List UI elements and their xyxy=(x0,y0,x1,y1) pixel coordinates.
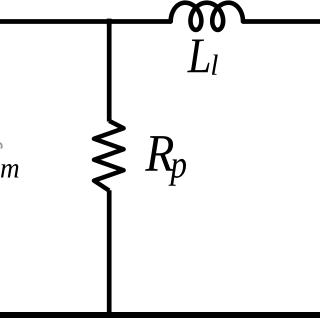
label R of R_p (resistor) xyxy=(145,136,174,171)
label p subscript of R_p xyxy=(168,159,185,186)
label m: cut-off subscript of left component xyxy=(1,164,19,178)
wire vertical upper branch xyxy=(107,24,112,122)
label L of L_l (inductor) xyxy=(187,39,209,72)
cut-off letter fragment at left edge xyxy=(0,143,2,149)
wire bottom horizontal xyxy=(0,312,320,318)
label l subscript of L_l xyxy=(212,54,218,74)
resistor R_p zigzag xyxy=(94,121,124,191)
wire top-right horizontal xyxy=(243,19,320,24)
node junction top (vertical meets top wire) xyxy=(107,19,112,26)
wire top-left horizontal xyxy=(0,19,171,24)
inductor L_l coil xyxy=(171,3,243,30)
wire vertical lower branch xyxy=(107,190,112,315)
